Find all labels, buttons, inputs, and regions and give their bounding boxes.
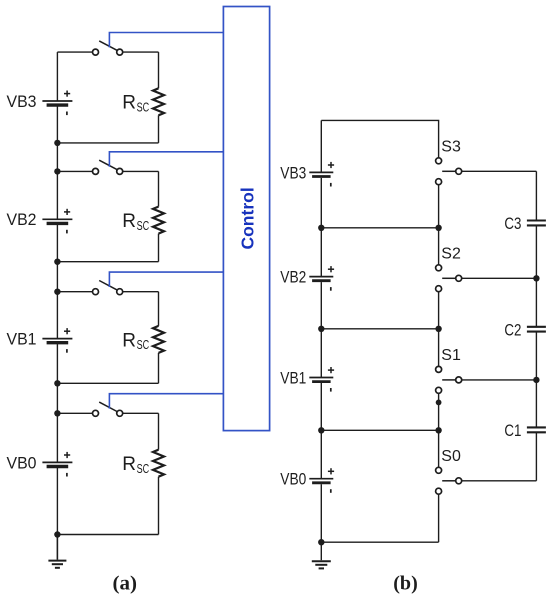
node: junction dot bottom of loop VB3 — [54, 140, 60, 146]
wire: loop VB0 bottom wire — [57, 534, 158, 536]
wire: blue control wire to SW1 — [109, 272, 223, 287]
svg-text:VB3: VB3 — [280, 164, 306, 182]
wire: column row2-S1 — [438, 329, 440, 367]
svg-text:S3: S3 — [441, 139, 461, 156]
wire: bus (a) segment below VB3 — [56, 107, 58, 220]
wire: loop VB0 right side lower — [158, 477, 160, 535]
battery VB2 (a) — [42, 218, 72, 220]
wire: switch wire loop VB3 (a) — [57, 51, 92, 53]
node: junction dot bottom of loop VB2 — [54, 259, 60, 265]
svg-text:SC: SC — [137, 338, 150, 352]
switch S0 — [436, 467, 442, 473]
node: bus junction row 3 — [318, 427, 324, 433]
wire: column S2-row2 — [438, 292, 440, 329]
wire: loop VB1 right side upper — [158, 292, 160, 326]
wire: tap row 1 (b) — [321, 227, 438, 229]
wire: column row1-S2 — [438, 228, 440, 265]
node: column junction row 2 — [435, 326, 441, 332]
svg-text:VB2: VB2 — [280, 269, 306, 287]
svg-text:R: R — [122, 454, 136, 475]
wire: capacitor bus seg 3 — [535, 332, 537, 428]
svg-text:SC: SC — [137, 462, 150, 476]
resistor RSC loop VB0 — [153, 450, 164, 477]
wire: tap row 2 (b) — [321, 328, 438, 330]
capacitor C1 — [527, 426, 546, 428]
svg-text:R: R — [122, 211, 136, 232]
ground (b) — [312, 560, 331, 562]
battery VB1 (a) — [42, 338, 72, 340]
svg-text:(b): (b) — [393, 573, 418, 595]
switch SW3 (a) — [93, 49, 99, 55]
wire: tap row 3 (b) — [321, 429, 438, 431]
node: extra junction dot below S1 — [436, 400, 442, 406]
svg-text:R: R — [122, 93, 136, 114]
switch S2 — [436, 265, 442, 271]
battery VB1 (b) — [309, 377, 333, 379]
wire: column row3-S0 — [438, 430, 440, 467]
wire: column S3-row1 — [438, 185, 440, 228]
wire: bus (b) segment below VB1 — [320, 383, 322, 479]
wire: bottom wire (b) — [321, 541, 438, 543]
svg-text:S0: S0 — [441, 448, 461, 465]
node: bus junction row 1 — [318, 225, 324, 231]
wire: bus (a) segment below VB1 — [56, 344, 58, 462]
node: junction dot bottom of loop VB0 — [54, 531, 60, 537]
svg-text:S1: S1 — [441, 347, 461, 364]
wire: loop VB3 right side upper — [158, 52, 160, 88]
battery VB0 (a) — [42, 461, 72, 463]
svg-text:VB1: VB1 — [7, 331, 37, 349]
node: junction dot at switch wire VB1 — [54, 289, 60, 295]
svg-text:R: R — [122, 330, 136, 351]
wire: top wire (b) — [321, 120, 438, 157]
wire: blue control wire to SW0 — [109, 394, 223, 409]
switch S3 — [436, 158, 442, 164]
wire: bus (a) segment below VB0 to ground — [56, 468, 58, 560]
wire: capacitor bus seg 4 — [535, 432, 537, 481]
wire: loop VB3 right side lower — [158, 115, 160, 143]
wire: capacitor bus seg 1 — [535, 171, 537, 220]
wire: bus (a) segment below VB2 — [56, 225, 58, 339]
resistor RSC loop VB1 — [153, 326, 164, 353]
svg-text:C3: C3 — [504, 215, 521, 233]
wire: bus (b) segment below VB2 — [320, 282, 322, 377]
wire: blue control wire to SW2 — [109, 152, 223, 167]
wire: switch wire loop VB0 (a) — [57, 412, 92, 414]
wire: S2 pole to capacitor bus — [462, 277, 537, 279]
control block U1 — [223, 7, 269, 431]
resistor RSC loop VB3 — [153, 88, 164, 115]
node: column junction row 1 — [435, 225, 441, 231]
capacitor C3 — [527, 219, 546, 221]
switch SW1 (a) — [93, 289, 99, 295]
wire: loop VB1 bottom wire — [57, 382, 158, 384]
svg-text:VB2: VB2 — [7, 211, 37, 229]
battery VB3 (a) — [42, 100, 72, 102]
svg-text:SC: SC — [137, 219, 150, 233]
wire: blue control wire to SW3 — [109, 33, 223, 48]
svg-text:C2: C2 — [504, 321, 521, 339]
node: junction dot at switch wire VB2 — [54, 168, 60, 174]
node: junction dot bottom of loop VB1 — [54, 380, 60, 386]
svg-text:VB0: VB0 — [280, 471, 306, 489]
wire: loop VB2 right side upper — [158, 171, 160, 206]
svg-text:VB0: VB0 — [7, 454, 37, 472]
node: cap bus junction S2 — [533, 275, 539, 281]
wire: column S0-bottom — [438, 494, 440, 542]
wire: bus (b) top segment — [320, 120, 322, 172]
resistor RSC loop VB2 — [153, 207, 164, 234]
svg-text:VB3: VB3 — [7, 93, 37, 111]
svg-text:S2: S2 — [441, 246, 461, 263]
wire: column S1-row3 — [438, 393, 440, 430]
wire: switch wire loop VB2 (a) — [57, 170, 92, 172]
switch SW2 (a) — [93, 168, 99, 174]
svg-text:SC: SC — [137, 101, 150, 115]
wire: loop VB2 right side lower — [158, 234, 160, 262]
svg-text:C1: C1 — [504, 422, 521, 440]
wire: bus (b) segment below VB0 to ground — [320, 484, 322, 560]
svg-text:Control: Control — [237, 187, 257, 249]
svg-text:VB1: VB1 — [280, 369, 306, 387]
wire: S3 pole to capacitor bus — [462, 170, 537, 172]
node: junction dot bottom (b) — [318, 539, 324, 545]
wire: S1 pole to capacitor bus — [462, 379, 537, 381]
wire: capacitor bus seg 2 — [535, 225, 537, 326]
wire: S0 pole to capacitor bus — [462, 480, 537, 482]
switch SW0 (a) — [93, 410, 99, 416]
battery VB3 (b) — [309, 171, 333, 173]
wire: loop VB2 bottom wire — [57, 261, 158, 263]
node: column junction row 3 — [435, 427, 441, 433]
battery VB2 (b) — [309, 276, 333, 278]
node: junction dot at switch wire VB0 — [54, 410, 60, 416]
wire: bus (b) segment below VB3 — [320, 178, 322, 277]
wire: loop VB1 right side lower — [158, 353, 160, 383]
battery VB0 (b) — [309, 478, 333, 480]
capacitor C2 — [527, 326, 546, 328]
svg-text:(a): (a) — [113, 573, 138, 595]
wire: switch wire loop VB1 (a) — [57, 291, 92, 293]
switch S1 — [436, 366, 442, 372]
ground (a) — [56, 535, 58, 560]
wire: loop VB3 bottom wire — [57, 142, 158, 144]
node: cap bus junction S1 — [533, 377, 539, 383]
node: bus junction row 2 — [318, 326, 324, 332]
wire: cell-stack bus (a) top segment — [56, 52, 58, 101]
wire: loop VB0 right side upper — [158, 413, 160, 449]
